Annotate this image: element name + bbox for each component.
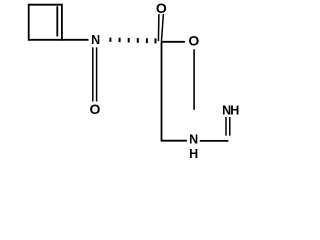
double bond C4=NH: [225, 117, 227, 136]
cyclobutene ring double bond inner line: [56, 6, 58, 36]
double bond N1=O (nitroso): [92, 47, 94, 101]
hashed stereo bond N1 to C2: [109, 38, 156, 44]
cyclobutene ring: [29, 5, 62, 40]
svg-text:O: O: [89, 101, 100, 117]
svg-text:N: N: [189, 133, 198, 147]
wire CH2 corner to N3: [161, 140, 187, 142]
wire ring to N1: [62, 39, 89, 41]
svg-text:O: O: [156, 0, 167, 16]
wire C2 to ester O: [162, 41, 185, 43]
svg-text:H: H: [189, 147, 198, 161]
svg-text:N: N: [91, 33, 100, 47]
wire ester O to methyl: [193, 49, 195, 110]
wire N3 to C4: [200, 140, 229, 142]
wire C2 down (CH2): [161, 42, 163, 141]
svg-text:O: O: [188, 33, 199, 49]
double bond C2=O (carbonyl): [161, 14, 163, 42]
svg-text:H: H: [230, 103, 239, 117]
